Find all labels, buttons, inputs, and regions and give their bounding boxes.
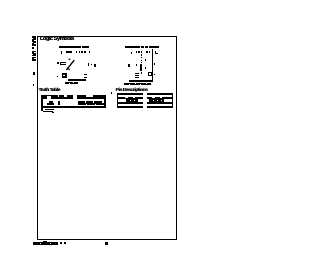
pin table stripe D right cell (bottom) [147, 106, 172, 108]
left margin speck 1 [33, 72, 35, 75]
pin table stripe C left cell [118, 102, 143, 104]
switch labels: I . square [88, 63, 89, 66]
right figure: left square node [128, 64, 130, 67]
truth table row2 entries [47, 103, 53, 105]
switch symbol: diagonal arm [65, 57, 77, 71]
left figure caption line 1 [59, 46, 81, 48]
pin table center blob left cell [126, 99, 137, 102]
pin table stripe B left cell (header text) [118, 97, 143, 100]
right figure caption line 2 [131, 52, 133, 54]
footer copyright [33, 242, 58, 245]
switch symbol: input wire [57, 62, 60, 64]
stray speck right of truth table heading [111, 92, 112, 93]
right figure: hook mark [155, 51, 156, 54]
truth table bottom band [41, 106, 106, 108]
heading: Logic Symbols [40, 36, 74, 42]
second symbol: contact box (dense) [62, 73, 67, 78]
second symbol: output wire [68, 79, 87, 81]
truth table left border [41, 95, 42, 109]
truth table right border [104, 95, 106, 109]
right figure: triple line marks [135, 73, 139, 74]
truth table row1 entries [49, 101, 52, 103]
second symbol: = label [84, 74, 87, 76]
right figure: middle dot [136, 64, 137, 66]
heading: Pin Descriptions [116, 88, 148, 93]
pin table center blob right cell [149, 99, 164, 102]
truth table header band right [77, 95, 104, 99]
footer page number [105, 242, 108, 245]
right figure: bottom line [129, 80, 153, 82]
second symbol: node dot [57, 76, 58, 78]
right figure: gate dot lower [145, 67, 146, 68]
right figure: dot right of box [154, 74, 155, 75]
right figure: small box at line bottom [148, 72, 152, 76]
right figure: gate dot upper [145, 59, 147, 61]
pin table stripe A left cell [118, 93, 143, 95]
vertical part-number text (left margin) [32, 36, 35, 46]
pin table right border [172, 93, 174, 108]
switch symbol: contact box (open right) [60, 62, 66, 65]
truth table header band left [43, 95, 73, 99]
pin table stripe C right cell [147, 102, 172, 104]
right figure: bold channel bar [140, 64, 142, 71]
right figure caption line 1 [125, 46, 159, 48]
pin table stripe B right cell [147, 97, 172, 100]
pin table left border [117, 93, 118, 108]
right figure: outer vertical line [152, 49, 153, 80]
note under truth table [41, 108, 42, 110]
pin table stripe D left cell (bottom) [118, 106, 143, 108]
heading: Truth Table [39, 88, 60, 93]
pin table stripe A right cell [147, 93, 172, 95]
right figure caption bottom [124, 83, 151, 86]
right figure: dashed center line [141, 51, 142, 53]
left margin speck 2 [33, 84, 34, 86]
left figure caption bottom [65, 82, 78, 85]
right figure: right square node [154, 63, 156, 65]
page frame border [37, 36, 177, 241]
left figure caption line 2 [61, 51, 62, 54]
